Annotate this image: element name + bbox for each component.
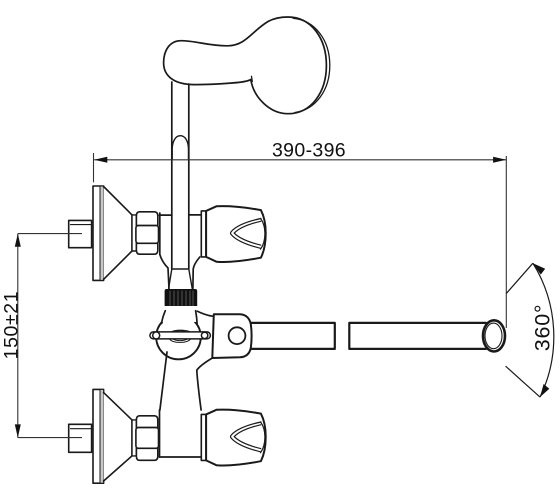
top mount cone <box>104 187 132 280</box>
top knob grip lens <box>230 219 260 249</box>
360 rotation arc <box>506 263 554 397</box>
bottom mount cone <box>104 393 132 481</box>
bottom mount connector <box>69 424 92 452</box>
svg-text:360°: 360° <box>531 304 555 352</box>
bottom knob grip lens <box>230 422 260 452</box>
ring ribs <box>170 291 193 306</box>
bottom mount cylinder <box>132 420 136 456</box>
lever handle edge double line <box>293 18 330 112</box>
arrow up <box>15 234 21 247</box>
dimension 150±21 <box>18 234 82 438</box>
lower body sides <box>160 352 167 410</box>
bottom knob collar <box>201 414 206 460</box>
bottom knob face inner arc <box>261 422 265 453</box>
svg-text:150±21: 150±21 <box>0 291 22 360</box>
arrow down <box>15 424 21 437</box>
arrow left <box>94 157 107 163</box>
top knob body <box>206 206 266 262</box>
lever junction tick <box>251 76 254 81</box>
top knob face inner arc <box>261 218 265 249</box>
spout block screw <box>229 327 246 344</box>
top mount wall plate <box>93 186 104 280</box>
top mount connector <box>69 220 92 247</box>
stem base <box>172 268 189 270</box>
body neck below ring (covers circle top) <box>162 306 200 322</box>
body lower right curve from block <box>197 358 213 370</box>
spout tube segment 1 <box>252 323 335 349</box>
ball housing circle <box>156 315 201 360</box>
faucet body upper <box>159 214 171 216</box>
bottom mount hex nut <box>136 416 159 461</box>
spout block <box>212 314 251 358</box>
top mount cylinder <box>132 215 136 251</box>
swirl arcs inside ball <box>169 330 190 342</box>
bottom mount wall plate <box>93 389 104 483</box>
body side below ring right / to spout block top <box>196 311 198 325</box>
body to block connector curve <box>197 311 212 316</box>
top mount hex nut <box>136 212 159 254</box>
spout tube segment 2 <box>349 323 486 349</box>
black ribbed ring <box>165 289 198 311</box>
arc arrow bottom <box>540 384 549 397</box>
svg-text:390-396: 390-396 <box>272 140 346 162</box>
lever handle <box>164 17 327 114</box>
swivel pin <box>150 332 211 339</box>
dimension 390-396 <box>94 153 507 328</box>
arrow right <box>493 157 506 163</box>
body side below ring left <box>162 311 166 324</box>
lever stem <box>171 82 173 269</box>
bottom body edge / washer <box>159 410 161 457</box>
arc arrow top <box>533 263 545 274</box>
bottom knob body <box>206 410 266 466</box>
bottom shoulder <box>160 456 202 458</box>
top knob collar <box>201 211 206 257</box>
cartridge dome <box>172 136 188 160</box>
spout end cap <box>483 320 505 351</box>
